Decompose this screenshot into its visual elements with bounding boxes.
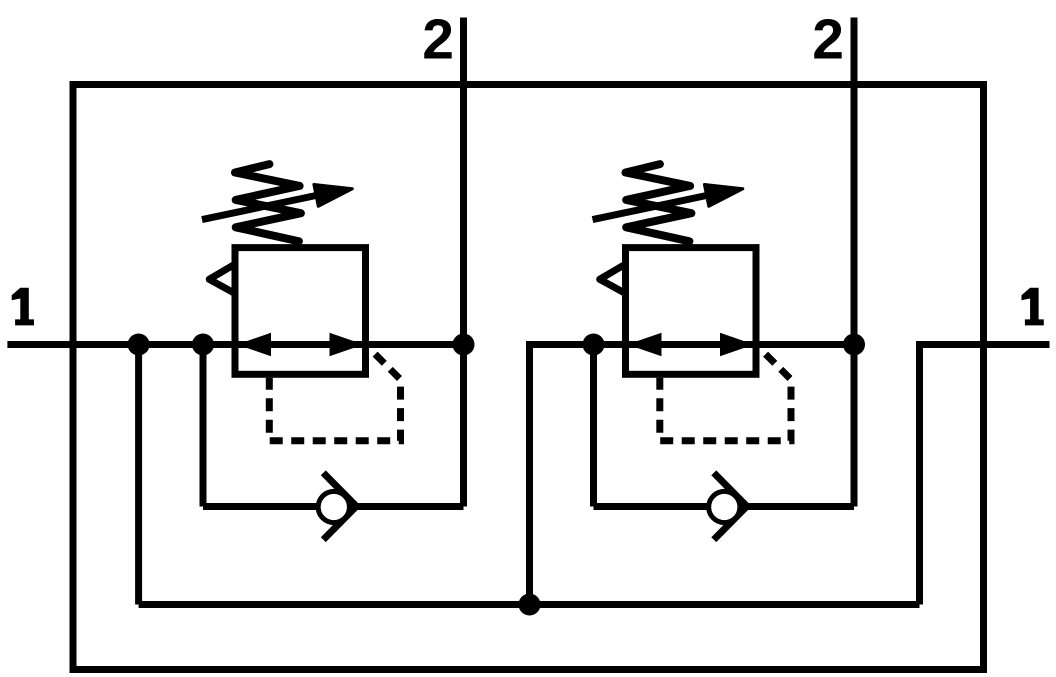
regulator R1 body [235,248,366,375]
wire: port 2 riser (regulator 2) [851,18,858,507]
wire: check valve line left segment (regulator 1) [203,503,334,510]
regulator R1 adjustment arrow shaft [202,196,316,220]
regulator R2 flow arrow left [628,333,662,356]
wire: manifold bottom bus [139,601,920,608]
regulator R1 flow arrow left [237,333,271,356]
regulator R1 flow arrow right [330,333,364,356]
node: junction dot check branch R1 [192,334,214,356]
check valve V1 ball [318,491,349,522]
svg-text:2: 2 [422,8,454,72]
regulator R2 body [626,248,757,375]
check valve V2 ball [709,491,740,522]
check valve V1 seat wedge [334,490,356,523]
enclosure box [73,85,984,670]
check valve V1 seat arms [323,473,356,540]
wire: port 1 line right [920,345,1050,605]
node: junction dot supply/left drop [128,334,150,356]
wire: check valve line right segment (regulator 2) [747,503,854,510]
node: junction dot R1 outlet [453,334,475,356]
wire: check valve line left segment (regulator 2) [594,503,725,510]
regulator R1 adjustment arrow head [314,185,352,207]
regulator R2 pilot line (dashed) [660,350,791,441]
node: junction dot R2 outlet [843,334,865,356]
port label 1 (left) [12,288,34,326]
regulator R2 spring [626,164,692,241]
wire: regulator 2 feed line [530,345,855,605]
wire: left drop to manifold bottom bus [135,345,142,605]
check valve V2 seat arms [714,473,747,540]
svg-text:2: 2 [812,8,844,72]
regulator R1 relief vent triangle [209,264,236,295]
check valve V2 seat wedge [725,490,747,523]
regulator R2 relief vent triangle [600,264,627,295]
wire: port 2 riser (regulator 1) [460,18,467,507]
port label 1 (right) [1022,288,1044,326]
wire: port 1 supply line left [7,341,463,348]
regulator R2 flow arrow right [720,333,754,356]
wire: check valve branch drop (regulator 2) [590,345,597,507]
regulator R2 adjustment arrow head [704,185,742,207]
node: junction dot check branch R2 [583,334,605,356]
regulator R1 spring [235,164,301,241]
wire: check valve branch drop (regulator 1) [200,345,207,507]
wire: check valve line right segment (regulator 1) [357,503,464,510]
node: junction dot bottom bus [519,594,541,616]
regulator R1 pilot line (dashed) [269,350,400,441]
regulator R2 adjustment arrow shaft [593,196,707,220]
